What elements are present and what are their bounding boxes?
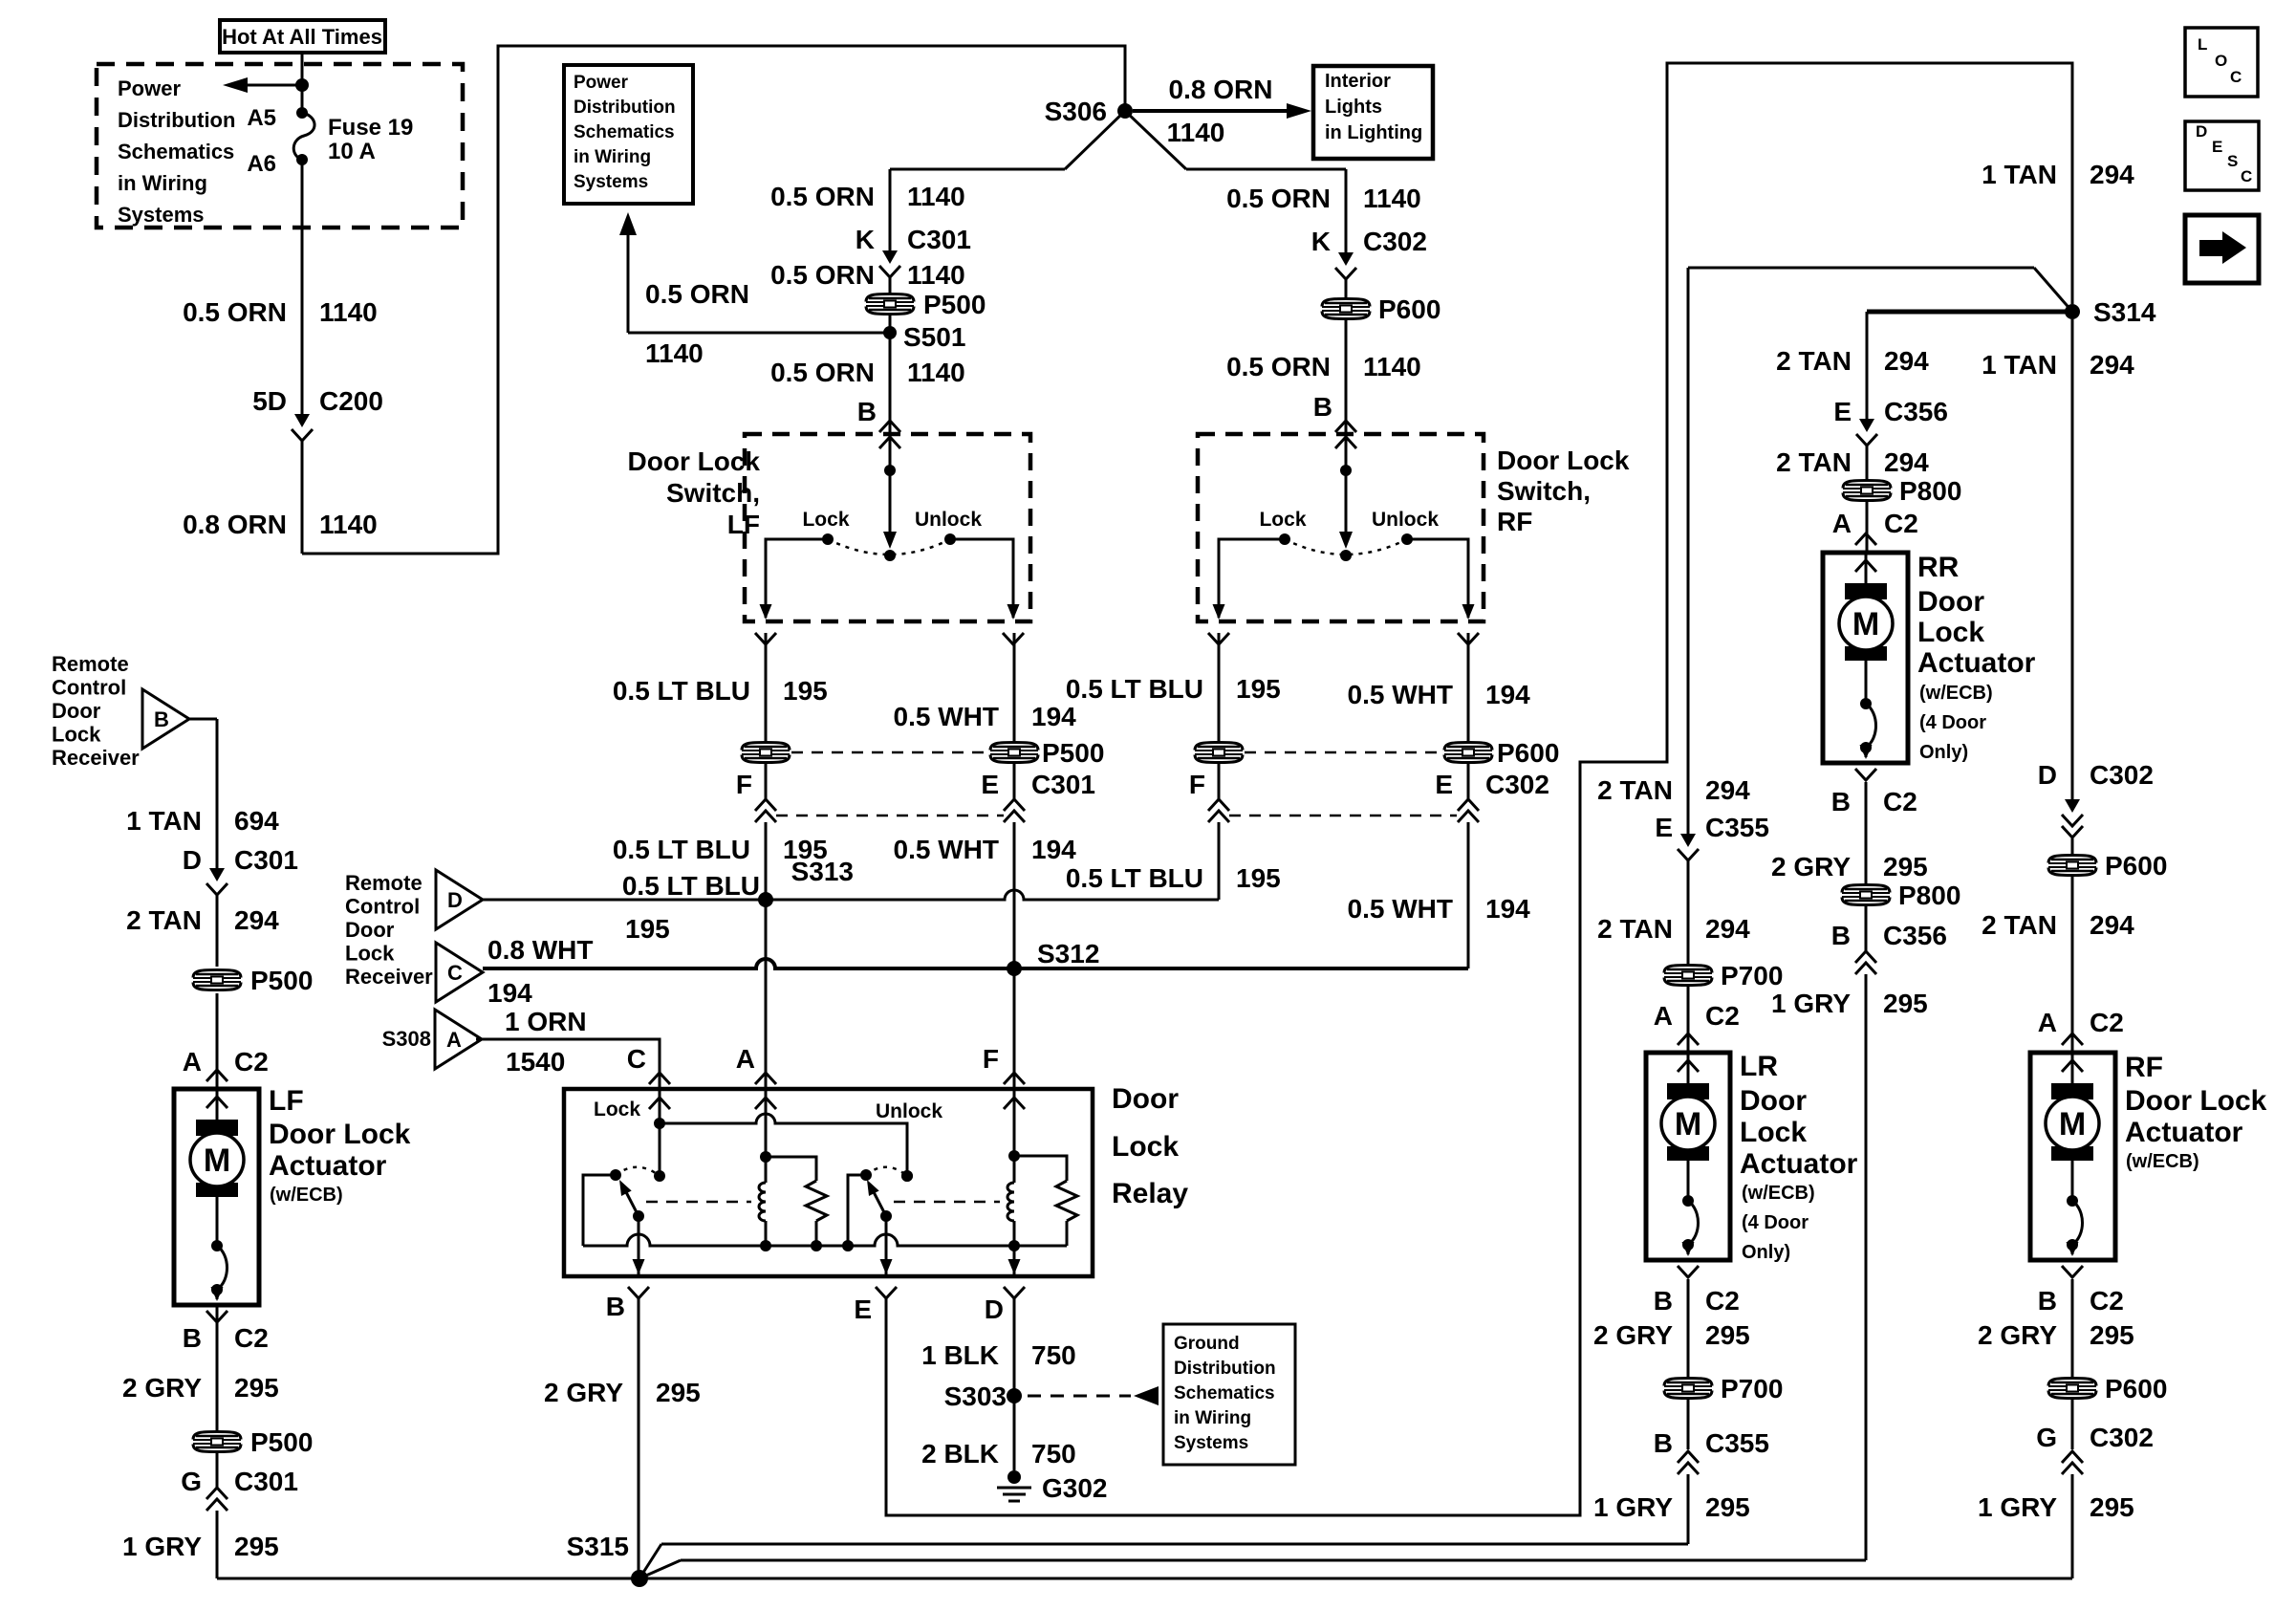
- svg-text:2 TAN: 2 TAN: [1597, 775, 1673, 805]
- svg-text:P500: P500: [1042, 738, 1104, 768]
- svg-text:in Wiring: in Wiring: [118, 171, 207, 195]
- svg-text:Lock: Lock: [1112, 1131, 1179, 1163]
- svg-text:2 GRY: 2 GRY: [1593, 1320, 1673, 1350]
- svg-text:P600: P600: [2105, 1374, 2167, 1403]
- svg-text:RF: RF: [1497, 507, 1532, 536]
- svg-text:B: B: [1831, 921, 1851, 950]
- svg-text:Door: Door: [345, 918, 395, 942]
- svg-text:C2: C2: [234, 1047, 269, 1077]
- svg-text:Door Lock: Door Lock: [1497, 446, 1630, 475]
- svg-text:295: 295: [656, 1378, 701, 1407]
- svg-text:LF: LF: [269, 1085, 304, 1117]
- svg-text:194: 194: [1485, 680, 1530, 709]
- svg-text:2 BLK: 2 BLK: [921, 1439, 999, 1469]
- svg-text:0.5 ORN: 0.5 ORN: [183, 297, 287, 327]
- svg-text:A: A: [736, 1044, 755, 1074]
- svg-text:2 GRY: 2 GRY: [1771, 852, 1851, 881]
- svg-text:A5: A5: [247, 105, 276, 131]
- svg-text:0.5 ORN: 0.5 ORN: [1226, 352, 1331, 381]
- svg-text:K: K: [1311, 227, 1331, 256]
- svg-text:750: 750: [1031, 1439, 1076, 1469]
- svg-text:D: D: [447, 888, 463, 912]
- svg-text:Lock: Lock: [802, 509, 849, 531]
- svg-text:0.5 ORN: 0.5 ORN: [770, 182, 875, 211]
- svg-text:S308: S308: [382, 1027, 431, 1051]
- svg-text:2 TAN: 2 TAN: [1982, 910, 2057, 940]
- svg-text:Unlock: Unlock: [876, 1100, 942, 1122]
- svg-text:B: B: [154, 707, 169, 731]
- svg-text:Distribution: Distribution: [118, 108, 235, 132]
- svg-text:Lock: Lock: [1740, 1117, 1807, 1148]
- svg-text:G: G: [2036, 1423, 2057, 1452]
- svg-text:Schematics: Schematics: [574, 122, 675, 142]
- svg-text:0.5 WHT: 0.5 WHT: [894, 835, 999, 864]
- svg-text:294: 294: [2090, 160, 2134, 189]
- svg-text:B: B: [2038, 1286, 2057, 1316]
- svg-text:1 GRY: 1 GRY: [1978, 1492, 2057, 1522]
- svg-text:Lock: Lock: [345, 942, 395, 966]
- svg-text:LF: LF: [727, 510, 760, 539]
- svg-text:Actuator: Actuator: [269, 1150, 387, 1182]
- svg-text:C302: C302: [1485, 770, 1549, 799]
- svg-text:A: A: [183, 1047, 202, 1077]
- svg-text:C301: C301: [1031, 770, 1095, 799]
- svg-text:Ground: Ground: [1174, 1334, 1240, 1354]
- svg-text:0.5 WHT: 0.5 WHT: [1348, 680, 1453, 709]
- svg-text:294: 294: [1705, 775, 1750, 805]
- svg-text:C2: C2: [1705, 1286, 1740, 1316]
- svg-text:Switch,: Switch,: [1497, 476, 1591, 506]
- svg-text:A: A: [1654, 1001, 1673, 1031]
- svg-text:1 TAN: 1 TAN: [1982, 160, 2057, 189]
- svg-text:B: B: [606, 1292, 625, 1321]
- svg-text:0.5 ORN: 0.5 ORN: [770, 260, 875, 290]
- svg-text:Door: Door: [1917, 586, 1984, 618]
- svg-text:S: S: [2227, 152, 2238, 170]
- svg-text:195: 195: [625, 914, 670, 944]
- svg-text:194: 194: [1485, 894, 1530, 924]
- svg-text:C301: C301: [234, 1467, 298, 1496]
- svg-text:Power: Power: [118, 76, 181, 100]
- svg-text:Receiver: Receiver: [52, 746, 140, 770]
- svg-text:C355: C355: [1705, 1428, 1769, 1458]
- svg-text:2 GRY: 2 GRY: [544, 1378, 623, 1407]
- svg-text:0.5 LT BLU: 0.5 LT BLU: [1066, 674, 1203, 704]
- svg-text:1 TAN: 1 TAN: [126, 806, 202, 836]
- svg-text:Remote: Remote: [345, 871, 422, 895]
- svg-text:Distribution: Distribution: [1174, 1359, 1276, 1379]
- svg-text:(w/ECB): (w/ECB): [1919, 683, 1993, 704]
- svg-text:E: E: [2212, 138, 2222, 156]
- svg-text:Lock: Lock: [52, 723, 101, 747]
- svg-text:C302: C302: [2090, 1423, 2154, 1452]
- svg-text:P600: P600: [1497, 738, 1559, 768]
- svg-text:B: B: [857, 397, 877, 426]
- svg-text:C: C: [447, 961, 463, 985]
- svg-text:Unlock: Unlock: [1372, 509, 1439, 531]
- svg-text:P500: P500: [250, 966, 313, 995]
- svg-text:0.8 ORN: 0.8 ORN: [1169, 75, 1273, 104]
- svg-text:195: 195: [783, 676, 828, 706]
- svg-text:0.5 ORN: 0.5 ORN: [1226, 184, 1331, 213]
- svg-text:RF: RF: [2125, 1052, 2163, 1083]
- svg-text:P600: P600: [1378, 294, 1440, 324]
- svg-text:1140: 1140: [907, 358, 965, 387]
- svg-text:F: F: [736, 770, 752, 799]
- svg-text:E: E: [1655, 813, 1673, 842]
- svg-text:Lock: Lock: [594, 1099, 640, 1120]
- svg-text:Door: Door: [1112, 1083, 1179, 1115]
- svg-text:S312: S312: [1037, 939, 1099, 968]
- svg-text:Actuator: Actuator: [1740, 1148, 1858, 1180]
- svg-text:G: G: [181, 1467, 202, 1496]
- svg-text:1140: 1140: [319, 297, 378, 327]
- svg-text:295: 295: [1705, 1492, 1750, 1522]
- svg-text:1540: 1540: [506, 1047, 565, 1077]
- svg-text:295: 295: [234, 1532, 279, 1561]
- svg-text:Lights: Lights: [1325, 97, 1382, 118]
- svg-text:Distribution: Distribution: [574, 98, 676, 118]
- svg-text:Switch,: Switch,: [666, 478, 760, 508]
- svg-text:E: E: [1833, 397, 1852, 426]
- svg-text:in Wiring: in Wiring: [1174, 1408, 1251, 1428]
- svg-text:Hot At All Times: Hot At All Times: [222, 25, 382, 49]
- svg-text:0.5 WHT: 0.5 WHT: [894, 702, 999, 731]
- svg-text:0.5 ORN: 0.5 ORN: [645, 279, 749, 309]
- svg-text:D: D: [183, 845, 202, 875]
- svg-text:194: 194: [1031, 702, 1076, 731]
- svg-text:P800: P800: [1898, 881, 1960, 910]
- svg-text:A6: A6: [247, 151, 276, 177]
- svg-text:S315: S315: [567, 1532, 629, 1561]
- svg-text:Fuse 19: Fuse 19: [328, 115, 413, 141]
- svg-text:2 TAN: 2 TAN: [1776, 447, 1852, 477]
- svg-text:294: 294: [1884, 346, 1929, 376]
- svg-text:C356: C356: [1883, 921, 1947, 950]
- svg-text:10 A: 10 A: [328, 139, 376, 164]
- svg-text:Lock: Lock: [1259, 509, 1306, 531]
- svg-text:Power: Power: [574, 73, 629, 93]
- svg-text:294: 294: [1705, 914, 1750, 944]
- svg-text:Systems: Systems: [1174, 1433, 1248, 1453]
- svg-text:194: 194: [487, 978, 532, 1008]
- svg-text:C200: C200: [319, 386, 383, 416]
- svg-text:F: F: [983, 1044, 999, 1074]
- svg-text:B: B: [1654, 1428, 1673, 1458]
- svg-text:C302: C302: [2090, 760, 2154, 790]
- svg-text:Door Lock: Door Lock: [2125, 1085, 2267, 1117]
- svg-text:K: K: [856, 225, 875, 254]
- svg-text:(4 Door: (4 Door: [1919, 712, 1986, 733]
- svg-text:195: 195: [1236, 863, 1281, 893]
- svg-text:C: C: [2241, 167, 2252, 185]
- svg-text:C355: C355: [1705, 813, 1769, 842]
- svg-text:L: L: [2198, 35, 2207, 54]
- svg-text:Control: Control: [52, 676, 126, 700]
- svg-text:1 BLK: 1 BLK: [921, 1340, 999, 1370]
- svg-text:295: 295: [1883, 989, 1928, 1018]
- svg-text:F: F: [1189, 770, 1205, 799]
- svg-text:P600: P600: [2105, 851, 2167, 881]
- svg-text:Systems: Systems: [118, 203, 205, 227]
- svg-text:194: 194: [1031, 835, 1076, 864]
- svg-text:1 TAN: 1 TAN: [1982, 350, 2057, 380]
- svg-text:750: 750: [1031, 1340, 1076, 1370]
- svg-text:1140: 1140: [1167, 118, 1225, 147]
- svg-text:1 GRY: 1 GRY: [1771, 989, 1851, 1018]
- svg-text:O: O: [2215, 52, 2227, 70]
- svg-text:S306: S306: [1045, 97, 1107, 126]
- svg-text:Door Lock: Door Lock: [628, 446, 761, 476]
- svg-text:Door: Door: [52, 699, 101, 723]
- svg-text:C301: C301: [234, 845, 298, 875]
- svg-text:1140: 1140: [1363, 352, 1421, 381]
- svg-text:B: B: [1654, 1286, 1673, 1316]
- svg-text:1140: 1140: [645, 338, 704, 368]
- svg-text:0.8 ORN: 0.8 ORN: [183, 510, 287, 539]
- svg-text:(w/ECB): (w/ECB): [2126, 1151, 2199, 1172]
- svg-text:Door: Door: [1740, 1085, 1807, 1117]
- svg-text:Systems: Systems: [574, 172, 648, 192]
- svg-text:A: A: [1832, 509, 1852, 538]
- svg-text:195: 195: [1236, 674, 1281, 704]
- svg-text:C2: C2: [234, 1323, 269, 1353]
- svg-text:B: B: [1313, 392, 1332, 422]
- svg-text:1 ORN: 1 ORN: [505, 1007, 587, 1036]
- svg-text:Relay: Relay: [1112, 1178, 1188, 1209]
- svg-text:S313: S313: [791, 857, 854, 886]
- svg-text:C2: C2: [1884, 509, 1918, 538]
- svg-text:(4 Door: (4 Door: [1742, 1212, 1809, 1233]
- svg-text:294: 294: [2090, 350, 2134, 380]
- svg-text:694: 694: [234, 806, 279, 836]
- svg-text:2 TAN: 2 TAN: [1776, 346, 1852, 376]
- svg-text:E: E: [854, 1295, 872, 1324]
- svg-text:294: 294: [234, 905, 279, 935]
- svg-text:Door Lock: Door Lock: [269, 1119, 411, 1150]
- svg-text:1140: 1140: [907, 182, 965, 211]
- svg-text:2 TAN: 2 TAN: [126, 905, 202, 935]
- svg-text:Only): Only): [1742, 1242, 1790, 1263]
- svg-text:C302: C302: [1363, 227, 1427, 256]
- svg-text:0.8 WHT: 0.8 WHT: [487, 935, 593, 965]
- svg-text:295: 295: [2090, 1492, 2134, 1522]
- svg-text:Actuator: Actuator: [1917, 647, 2036, 679]
- svg-text:P700: P700: [1721, 1374, 1783, 1403]
- svg-text:C2: C2: [1705, 1001, 1740, 1031]
- svg-text:294: 294: [1884, 447, 1929, 477]
- svg-text:in Wiring: in Wiring: [574, 147, 651, 167]
- svg-text:D: D: [985, 1295, 1004, 1324]
- svg-text:295: 295: [1883, 852, 1928, 881]
- svg-text:C2: C2: [2090, 1286, 2124, 1316]
- svg-text:0.5 ORN: 0.5 ORN: [770, 358, 875, 387]
- svg-text:Actuator: Actuator: [2125, 1117, 2243, 1148]
- svg-text:S501: S501: [903, 322, 965, 352]
- svg-text:Only): Only): [1919, 742, 1968, 763]
- svg-text:2 TAN: 2 TAN: [1597, 914, 1673, 944]
- svg-text:0.5 LT BLU: 0.5 LT BLU: [1066, 863, 1203, 893]
- svg-text:295: 295: [1705, 1320, 1750, 1350]
- svg-text:S303: S303: [944, 1382, 1007, 1411]
- svg-text:E: E: [981, 770, 999, 799]
- svg-text:RR: RR: [1917, 552, 1960, 583]
- svg-text:0.5 LT BLU: 0.5 LT BLU: [613, 835, 750, 864]
- svg-text:Remote: Remote: [52, 652, 129, 676]
- svg-text:in Lighting: in Lighting: [1325, 122, 1422, 143]
- svg-text:1 GRY: 1 GRY: [1593, 1492, 1673, 1522]
- svg-text:Schematics: Schematics: [1174, 1383, 1275, 1403]
- svg-text:Lock: Lock: [1917, 617, 1984, 648]
- svg-text:P500: P500: [923, 290, 986, 319]
- svg-text:1 GRY: 1 GRY: [122, 1532, 202, 1561]
- svg-text:D: D: [2196, 122, 2207, 141]
- svg-text:1140: 1140: [907, 260, 965, 290]
- svg-text:C: C: [2230, 68, 2242, 86]
- svg-text:D: D: [2038, 760, 2057, 790]
- svg-text:(w/ECB): (w/ECB): [1742, 1183, 1815, 1204]
- svg-text:0.5 LT BLU: 0.5 LT BLU: [622, 871, 760, 901]
- svg-text:1140: 1140: [1363, 184, 1421, 213]
- svg-text:Control: Control: [345, 895, 420, 919]
- svg-text:2 GRY: 2 GRY: [122, 1373, 202, 1403]
- svg-text:C356: C356: [1884, 397, 1948, 426]
- svg-text:295: 295: [234, 1373, 279, 1403]
- svg-text:2 GRY: 2 GRY: [1978, 1320, 2057, 1350]
- svg-text:P800: P800: [1899, 476, 1961, 506]
- svg-text:C2: C2: [1883, 787, 1917, 816]
- svg-text:B: B: [1831, 787, 1851, 816]
- svg-text:C: C: [627, 1044, 646, 1074]
- svg-text:0.5 LT BLU: 0.5 LT BLU: [613, 676, 750, 706]
- svg-text:(w/ECB): (w/ECB): [270, 1185, 343, 1206]
- svg-text:P500: P500: [250, 1427, 313, 1457]
- svg-text:Unlock: Unlock: [915, 509, 982, 531]
- svg-text:0.5 WHT: 0.5 WHT: [1348, 894, 1453, 924]
- svg-text:G302: G302: [1042, 1473, 1108, 1503]
- svg-text:E: E: [1435, 770, 1453, 799]
- svg-text:B: B: [183, 1323, 202, 1353]
- svg-text:295: 295: [2090, 1320, 2134, 1350]
- svg-text:A: A: [2038, 1008, 2057, 1037]
- svg-text:Interior: Interior: [1325, 71, 1391, 92]
- svg-text:C301: C301: [907, 225, 971, 254]
- svg-text:C2: C2: [2090, 1008, 2124, 1037]
- svg-text:S314: S314: [2093, 297, 2156, 327]
- svg-text:Receiver: Receiver: [345, 965, 433, 989]
- svg-text:5D: 5D: [252, 386, 287, 416]
- svg-text:1140: 1140: [319, 510, 378, 539]
- svg-text:294: 294: [2090, 910, 2134, 940]
- svg-text:A: A: [446, 1028, 462, 1052]
- svg-text:Schematics: Schematics: [118, 140, 234, 163]
- svg-text:LR: LR: [1740, 1051, 1778, 1082]
- svg-text:P700: P700: [1721, 961, 1783, 990]
